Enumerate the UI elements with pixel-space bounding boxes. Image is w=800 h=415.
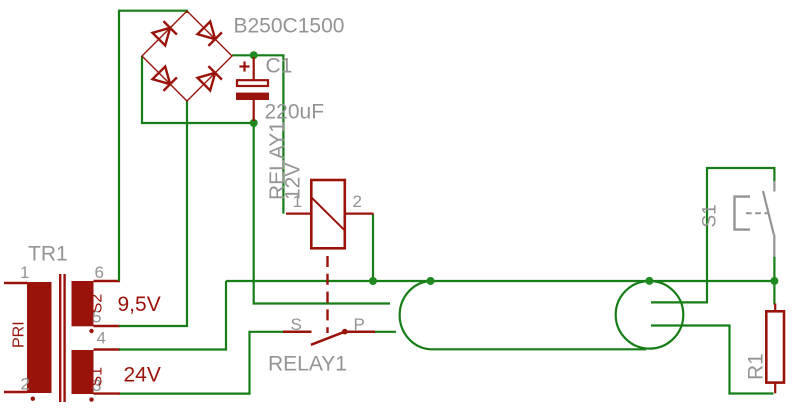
resistor R1 top pin stub: [774, 304, 776, 313]
capacitor C1 top plate: [237, 80, 268, 86]
transformer phase dot primary: [31, 397, 35, 401]
relay coil pin 2 stub: [345, 213, 374, 215]
wire: tube right upper electrode to switch S1: [651, 168, 774, 302]
relay coil pin 1 stub: [286, 213, 311, 215]
switch S1 actuator bracket: [735, 197, 751, 230]
junction: switch/resistor node on bus: [770, 277, 778, 285]
junction: capacitor top node: [250, 51, 258, 59]
relay contact lever: [311, 332, 345, 345]
lamp tube right bulb circle: [616, 281, 684, 349]
transformer TR1 primary winding: [27, 282, 52, 393]
bridge diode top-left: [153, 21, 177, 45]
bridge diode top-right: [198, 22, 222, 46]
resistor R1 body: [766, 311, 784, 382]
relay actuation dashed link: [326, 256, 328, 333]
junction: capacitor bottom node: [250, 119, 258, 127]
svg-text:B250C1500: B250C1500: [234, 15, 345, 38]
wire: relay coil pin 2 down to bus: [372, 214, 374, 281]
wire: transformer pin 4 up to long bus: [119, 281, 226, 350]
svg-text:1: 1: [20, 263, 29, 282]
wire: relay contact P to tube left lower electrode: [375, 331, 396, 333]
switch S1 lever: [763, 191, 774, 235]
junction: tube left arc on bus: [427, 277, 435, 285]
svg-text:24V: 24V: [124, 364, 161, 387]
transformer phase dot S2: [89, 329, 93, 333]
bridge diode bottom-left: [153, 67, 177, 91]
transformer TR1 secondary winding S2: [72, 281, 94, 326]
svg-text:2: 2: [21, 375, 30, 394]
wire: bridge right DC+ corner to relay coil pin 1: [232, 55, 283, 213]
switch S1 bottom pin: [773, 235, 775, 258]
wire: bridge left DC- corner to capacitor bottom node: [142, 56, 254, 123]
transformer TR1 pin 2 stub: [4, 391, 27, 393]
wire: switch S1 bottom to resistor R1 top: [773, 256, 775, 305]
junction: relay pin 2 on bus: [369, 277, 377, 285]
capacitor C1 top pin: [253, 57, 255, 80]
svg-text:6: 6: [95, 263, 104, 282]
bridge diode bottom-right: [198, 66, 222, 90]
svg-text:220uF: 220uF: [265, 101, 325, 124]
wire: relay contact S to transformer pin 3: [119, 332, 284, 394]
svg-text:4: 4: [97, 329, 106, 348]
transformer phase dot S1: [89, 397, 93, 401]
svg-text:S: S: [291, 315, 302, 334]
svg-text:TR1: TR1: [28, 243, 68, 266]
bridge rectifier B250C1500 diamond outline: [142, 11, 232, 101]
wire: tube right lower electrode to resistor R1 bottom: [651, 326, 774, 394]
transformer TR1 pin 1 stub: [4, 282, 27, 284]
relay contact pivot dot: [342, 329, 348, 335]
relay contact S terminal bar: [283, 331, 312, 334]
svg-text:S1: S1: [700, 204, 721, 227]
switch S1 top pin: [773, 181, 775, 192]
wire: capacitor bottom node down to tube left upper electrode: [254, 123, 390, 304]
svg-text:9,5V: 9,5V: [118, 293, 161, 316]
transformer pin 6 stub: [94, 280, 121, 282]
resistor R1 bottom pin stub: [774, 382, 776, 393]
wire: bridge bottom AC output to transformer pin 5: [119, 100, 187, 326]
svg-text:S2: S2: [88, 294, 105, 314]
svg-text:12V: 12V: [282, 163, 305, 200]
junction: tube right circle on bus: [645, 277, 653, 285]
capacitor C1 bottom plate: [236, 93, 269, 100]
relay coil diagonal: [312, 198, 345, 231]
svg-text:2: 2: [353, 192, 362, 211]
transformer pin 3 stub: [94, 392, 121, 394]
transformer pin 5 stub: [94, 325, 121, 327]
relay coil RELAY1 box: [311, 180, 345, 248]
wire: long horizontal bus / tube top: [226, 280, 775, 282]
transformer TR1 secondary winding S1: [72, 350, 94, 394]
svg-text:RELAY1: RELAY1: [268, 353, 347, 376]
svg-text:P: P: [354, 315, 365, 334]
relay contact P terminal bar: [346, 331, 376, 334]
wire: transformer pin 6 to bridge top AC input: [119, 11, 187, 281]
lamp tube left arc: [400, 281, 431, 349]
svg-text:C1: C1: [266, 55, 293, 78]
svg-text:R1: R1: [745, 353, 768, 380]
svg-text:S1: S1: [88, 367, 105, 387]
switch S1 actuator dashed link: [746, 212, 768, 214]
transformer TR1 core: [60, 274, 64, 402]
wire: tube bottom line: [431, 348, 647, 350]
svg-text:PRI: PRI: [11, 321, 28, 348]
transformer pin 4 stub: [94, 348, 121, 350]
capacitor C1 plus sign: [239, 61, 249, 71]
capacitor C1 bottom pin: [253, 100, 255, 121]
